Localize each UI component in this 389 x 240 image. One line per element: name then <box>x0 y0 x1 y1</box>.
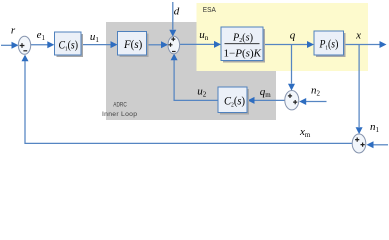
S1 minus sign <box>23 50 27 52</box>
ADRC inner loop gray region <box>106 22 276 120</box>
svg-text:ADRC: ADRC <box>113 101 127 108</box>
arrowhead qm into C2 <box>248 97 255 104</box>
svg-text:1−P(s)K: 1−P(s)K <box>224 48 263 59</box>
svg-text:q: q <box>290 30 296 42</box>
wire n1 input <box>374 144 389 146</box>
block C1 <box>55 32 82 55</box>
block P1 shadow <box>316 33 346 57</box>
block P2 fraction shadow <box>223 29 265 63</box>
S3 plus lower right <box>293 100 297 104</box>
arrowhead n1 into S4 right <box>367 141 374 148</box>
wire F to S2 <box>147 44 162 46</box>
arrowhead u2 into S2 bottom <box>171 54 178 61</box>
wire qm S3 to C2 <box>255 99 285 101</box>
block C2 shadow <box>220 89 249 115</box>
svg-text:P1(s): P1(s) <box>319 37 339 52</box>
wire xm feedback to S1 <box>25 61 352 143</box>
wire u2 C2 to S2 bottom <box>174 60 218 100</box>
block C2 <box>218 87 247 113</box>
S4 plus lower right <box>361 143 365 147</box>
arrowhead q into P1 <box>307 41 314 48</box>
S2 plus left <box>169 43 173 47</box>
svg-text:F(s): F(s) <box>123 37 142 51</box>
wire x output <box>344 44 381 46</box>
arrowhead x into S4 top <box>356 127 363 134</box>
svg-text:ESA: ESA <box>203 7 216 14</box>
svg-text:r: r <box>11 24 16 36</box>
fraction bar <box>225 43 260 45</box>
wire d disturbance <box>172 2 174 30</box>
arrowhead x output <box>380 41 387 48</box>
svg-text:x: x <box>355 30 361 42</box>
S4 plus upper left <box>355 138 359 142</box>
arrowhead u1 into F <box>111 41 118 48</box>
summing junction S3 <box>285 91 299 110</box>
wire u1 C1 to F <box>81 44 111 46</box>
wire un S2 to P2 <box>180 43 214 45</box>
arrowhead r into S1 <box>12 42 19 49</box>
block C1 shadow <box>57 34 84 57</box>
wire e1 S1 to C1 <box>31 44 48 46</box>
arrowhead n2 into S3 right <box>299 98 306 105</box>
block F shadow <box>120 34 149 58</box>
svg-text:Inner Loop: Inner Loop <box>102 111 137 118</box>
svg-text:P2(s): P2(s) <box>232 32 253 44</box>
arrowhead e1 into C1 <box>47 41 54 48</box>
ESA yellow region <box>197 3 369 71</box>
block P2 fraction <box>221 27 263 61</box>
summing junction S1 <box>18 36 30 54</box>
arrowhead into S2 left <box>161 41 168 48</box>
arrowhead xm into S1 bottom <box>22 55 29 62</box>
wire r input <box>1 44 12 46</box>
block F <box>118 32 147 56</box>
S3 plus upper left <box>288 94 292 98</box>
wire n2 input <box>306 101 327 103</box>
summing junction S2 <box>168 36 180 54</box>
svg-text:C2(s): C2(s) <box>224 93 245 108</box>
block P1 <box>314 31 344 55</box>
S1 plus sign <box>20 43 25 48</box>
arrowhead un into P2 <box>214 41 221 48</box>
wire q P2 to P1 <box>263 44 307 46</box>
S2 minus bottom <box>172 51 176 53</box>
svg-text:C1(s): C1(s) <box>59 37 79 52</box>
arrowhead d into S2 top <box>169 30 176 37</box>
svg-text:d: d <box>174 6 180 18</box>
wire x drop to S4 <box>358 45 360 128</box>
wire q drop to S3 <box>291 45 293 84</box>
summing junction S4 <box>352 134 366 153</box>
arrowhead q into S3 top <box>288 84 295 91</box>
S2 plus top <box>171 37 175 41</box>
